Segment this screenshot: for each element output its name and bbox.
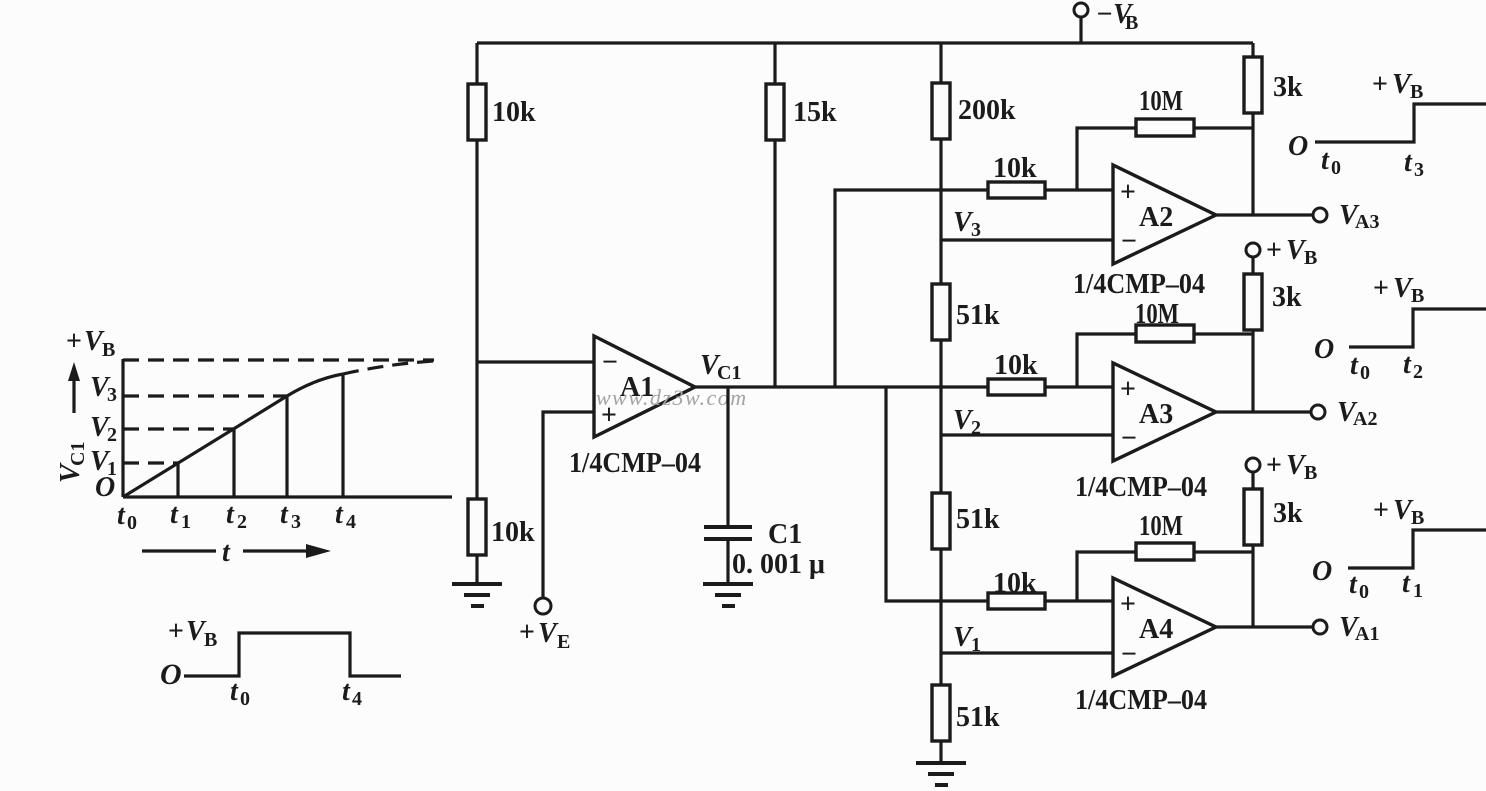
svg-text:3k: 3k [1273, 72, 1303, 103]
svg-text:E: E [557, 631, 570, 653]
svg-text:3: 3 [107, 384, 117, 406]
svg-text:A2: A2 [1353, 408, 1377, 430]
svg-text:2: 2 [107, 424, 117, 446]
svg-text:0: 0 [240, 688, 250, 710]
label +VB wave2 [1373, 273, 1424, 307]
svg-text:+: + [1372, 69, 1388, 100]
wire V2 to A3 minus [941, 433, 1113, 436]
svg-text:A1: A1 [1355, 623, 1379, 645]
svg-text:t: t [1349, 569, 1358, 600]
terminal +VB A4 [1246, 458, 1260, 472]
terminal +VE [535, 598, 551, 614]
svg-text:B: B [1125, 12, 1138, 34]
label t3 wave1 [1404, 147, 1424, 181]
label t4 graph [335, 499, 356, 533]
svg-text:51k: 51k [956, 504, 1000, 535]
graph dashed level V2 [123, 427, 234, 430]
svg-text:10k: 10k [993, 568, 1037, 599]
resistor 10M A2 [1136, 119, 1194, 136]
resistor 10M A3 [1136, 325, 1194, 342]
ground capacitor [703, 584, 753, 606]
svg-text:A3: A3 [1139, 399, 1173, 430]
svg-text:+: + [1373, 273, 1389, 304]
svg-text:B: B [1304, 462, 1317, 484]
wire V3 to A2 minus [941, 238, 1113, 241]
svg-text:O: O [95, 472, 115, 503]
input pulse waveform [184, 633, 401, 676]
graph drop line t1 [176, 463, 179, 497]
svg-text:0: 0 [1331, 157, 1341, 179]
svg-text:C1: C1 [717, 362, 741, 384]
svg-text:O: O [1314, 334, 1334, 365]
svg-text:A3: A3 [1355, 211, 1379, 233]
graph ramp curve [123, 374, 343, 497]
ground ladder [916, 763, 966, 785]
label +VE [519, 617, 570, 653]
svg-text:15k: 15k [793, 97, 837, 128]
label +VB A3 [1266, 235, 1317, 269]
svg-text:10k: 10k [491, 517, 535, 548]
svg-text:4: 4 [346, 511, 356, 533]
svg-text:3k: 3k [1273, 498, 1303, 529]
wire A1 inverting input [477, 360, 594, 363]
label t4 pulse [342, 676, 362, 710]
wire A4 feedback [1077, 552, 1253, 601]
label V1 graph [90, 446, 117, 480]
svg-text:1/4CMP–04: 1/4CMP–04 [569, 448, 701, 479]
terminal VA2 [1311, 405, 1325, 419]
resistor 10k top-left [468, 84, 486, 140]
label VA3 [1339, 200, 1379, 233]
wire top supply rail [477, 41, 1253, 44]
wire branch to A2 input [835, 190, 1113, 387]
svg-text:t: t [226, 499, 235, 530]
graph t axis arrow [142, 537, 331, 568]
svg-text:t: t [222, 537, 231, 568]
svg-text:−: − [602, 347, 618, 378]
label t3 graph [280, 499, 301, 533]
label VA2 [1337, 397, 1377, 430]
svg-text:1/4CMP–04: 1/4CMP–04 [1075, 685, 1207, 716]
svg-text:t: t [170, 499, 179, 530]
label t0 wave1 [1321, 145, 1341, 179]
node V1 label [953, 622, 981, 656]
svg-text:B: B [1304, 247, 1317, 269]
svg-text:10M: 10M [1139, 511, 1183, 542]
svg-text:+: + [1120, 177, 1136, 208]
svg-text:V: V [538, 618, 559, 649]
svg-text:1: 1 [1413, 580, 1423, 602]
svg-text:t: t [117, 500, 126, 531]
resistor 51k upper [932, 284, 950, 340]
label V2 graph [90, 412, 117, 446]
wire branch to A4 input [886, 387, 1113, 601]
label t0 pulse [230, 676, 250, 710]
node V3 label [953, 207, 981, 241]
resistor 10k A4 input [988, 593, 1045, 609]
graph drop line t3 [285, 396, 288, 497]
wire VC1 output bus [695, 385, 1113, 388]
resistor 51k lower [932, 685, 950, 741]
svg-text:t: t [1321, 145, 1330, 176]
label +VB A4 [1266, 450, 1317, 484]
svg-text:O: O [160, 658, 182, 691]
svg-text:10k: 10k [492, 97, 536, 128]
svg-text:C1: C1 [67, 442, 89, 466]
svg-text:10M: 10M [1139, 86, 1183, 117]
op-amp A4 [1113, 578, 1216, 676]
svg-text:B: B [1411, 285, 1424, 307]
capacitor C1 [704, 527, 752, 584]
resistor 10k A2 input [988, 182, 1045, 198]
ground left [452, 584, 502, 606]
resistor 3k A4 [1244, 489, 1262, 545]
svg-text:2: 2 [237, 511, 247, 533]
svg-text:O: O [1312, 556, 1332, 587]
resistor 10M A4 [1136, 543, 1194, 560]
label t0 wave3 [1349, 569, 1369, 603]
svg-text:+: + [1266, 235, 1282, 266]
svg-text:0: 0 [1360, 362, 1370, 384]
svg-text:1/4CMP–04: 1/4CMP–04 [1073, 269, 1205, 300]
wire A4 output [1216, 625, 1313, 628]
resistor 51k middle [932, 493, 950, 549]
wire 3k column A4 [1251, 472, 1254, 627]
wire A3 feedback [1077, 334, 1253, 387]
label t0 wave2 [1350, 350, 1370, 384]
svg-text:−: − [1121, 639, 1137, 670]
svg-text:t: t [280, 499, 289, 530]
svg-text:A2: A2 [1139, 202, 1173, 233]
svg-text:3: 3 [1414, 159, 1424, 181]
svg-text:+: + [1120, 589, 1136, 620]
svg-text:51k: 51k [956, 702, 1000, 733]
wire 15k column [773, 43, 776, 387]
resistor 10k lower-left [468, 499, 486, 555]
label t1 graph [170, 499, 191, 533]
svg-text:1: 1 [181, 511, 191, 533]
svg-text:+: + [519, 617, 535, 648]
wire resistor ladder column [939, 43, 942, 763]
svg-text:B: B [102, 339, 115, 361]
resistor 3k A2 [1244, 57, 1262, 113]
op-amp A1 [594, 336, 695, 437]
resistor 200k [932, 83, 950, 139]
wire A2 output [1216, 213, 1313, 216]
svg-text:+: + [1120, 374, 1136, 405]
wire A3 output [1216, 410, 1311, 413]
op-amp A3 [1113, 363, 1216, 461]
label +VB wave3 [1373, 495, 1424, 529]
svg-text:0: 0 [127, 512, 137, 534]
label V3 graph [90, 372, 117, 406]
svg-text:t: t [1403, 349, 1412, 380]
svg-text:+: + [168, 616, 184, 647]
graph dashed curve continuation [343, 361, 434, 374]
svg-text:B: B [1411, 507, 1424, 529]
wire A1 non-inverting input [543, 412, 594, 598]
graph dashed level V1 [123, 461, 178, 464]
label t2 wave2 [1403, 349, 1423, 383]
svg-text:www.dz3w.com: www.dz3w.com [596, 385, 748, 410]
op-amp A2 [1113, 165, 1216, 264]
label t1 wave3 [1402, 568, 1423, 602]
svg-text:0. 001 μ: 0. 001 μ [732, 549, 825, 580]
svg-text:O: O [1288, 131, 1308, 162]
svg-text:t: t [342, 676, 351, 707]
wire capacitor drop [726, 387, 729, 527]
svg-text:10k: 10k [994, 350, 1038, 381]
graph VC1 axis arrow [68, 362, 80, 413]
graph y-axis [121, 359, 124, 497]
wire A2 feedback [1077, 128, 1253, 190]
terminal +VB A3 [1246, 243, 1260, 257]
svg-text:t: t [1404, 147, 1413, 178]
node V2 label [953, 405, 981, 439]
svg-text:C1: C1 [768, 519, 802, 550]
svg-text:+: + [66, 326, 82, 357]
svg-text:A4: A4 [1139, 614, 1173, 645]
svg-text:B: B [1410, 81, 1423, 103]
wire V1 to A4 minus [941, 651, 1113, 654]
svg-text:−: − [1121, 423, 1137, 454]
svg-text:3k: 3k [1272, 282, 1302, 313]
graph drop line t4 [341, 374, 344, 497]
node VC1 label [700, 350, 741, 384]
graph x-axis [123, 495, 452, 498]
graph dashed level +VB [123, 358, 434, 361]
label +VB wave1 [1372, 69, 1423, 103]
wire 3k column A3 [1251, 257, 1254, 412]
wire left column [475, 43, 478, 584]
svg-text:3: 3 [291, 511, 301, 533]
graph drop line t2 [232, 429, 235, 497]
svg-text:−: − [1121, 226, 1137, 257]
svg-text:t: t [335, 499, 344, 530]
svg-text:0: 0 [1359, 581, 1369, 603]
svg-text:10k: 10k [993, 153, 1037, 184]
svg-text:3: 3 [971, 219, 981, 241]
resistor 3k A3 [1244, 274, 1262, 330]
waveform output t1 step [1348, 530, 1486, 568]
svg-text:10M: 10M [1135, 299, 1179, 330]
label VC1 rotated [55, 442, 89, 483]
label -VB [1096, 0, 1138, 34]
terminal -VB [1074, 3, 1088, 43]
svg-text:+: + [1266, 450, 1282, 481]
label t0 graph [117, 500, 137, 534]
resistor 10k A3 input [988, 379, 1045, 395]
svg-text:51k: 51k [956, 300, 1000, 331]
label +VB pulse [168, 616, 217, 651]
resistor 15k [766, 84, 784, 140]
label +VB graph [66, 326, 115, 361]
svg-text:B: B [204, 629, 217, 651]
svg-text:t: t [1402, 568, 1411, 599]
waveform output t2 step [1349, 309, 1486, 347]
svg-text:4: 4 [352, 688, 362, 710]
svg-text:1/4CMP–04: 1/4CMP–04 [1075, 472, 1207, 503]
wire 3k column A2 [1251, 43, 1254, 215]
terminal VA1 [1313, 620, 1327, 634]
svg-text:200k: 200k [958, 95, 1016, 126]
label t2 graph [226, 499, 247, 533]
label VA1 [1339, 612, 1379, 645]
svg-text:t: t [1350, 350, 1359, 381]
svg-text:t: t [230, 676, 239, 707]
graph dashed level V3 [123, 394, 287, 397]
svg-text:+: + [1373, 495, 1389, 526]
waveform output t3 step [1315, 104, 1486, 142]
terminal VA3 [1313, 208, 1327, 222]
svg-text:2: 2 [1413, 361, 1423, 383]
